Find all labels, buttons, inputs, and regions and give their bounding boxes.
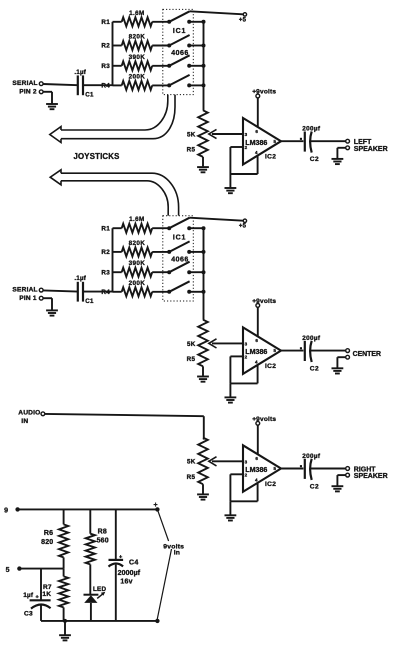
svg-text:IC2: IC2 [265,481,276,488]
svg-text:.1µf: .1µf [74,69,86,76]
potentiometer R5 5K section 3 [187,438,208,485]
svg-text:R1: R1 [101,225,110,232]
wiper arrow of R5 into pin 3 section 1 [209,129,243,138]
ground at bottom rail [59,619,71,641]
svg-text:2000µf: 2000µf [118,570,141,577]
svg-text:1µf: 1µf [23,592,34,599]
joysticks arrow into IC1 section 2 [50,170,178,216]
wire C2 to output terminal section 1 [311,140,346,142]
svg-text:200µf: 200µf [302,335,321,342]
capacitor C2 200uf section 3 [300,453,321,491]
analog switch 3 of IC1 section 2 [152,262,191,275]
svg-text:200K: 200K [129,280,146,287]
analog switch 4 of IC1 section 2 [152,281,191,294]
ground at output terminal section 2 [332,357,346,373]
analog switch 2 of IC1 section 1 [152,35,191,48]
svg-text:IC1: IC1 [173,234,186,241]
wire switch 3 output to bus section 1 [189,64,205,68]
resistor R8 560 [86,509,109,564]
svg-text:390K: 390K [129,260,146,267]
wiper arrow of R5 into pin 3 section 2 [209,339,243,348]
label RIGHT SPEAKER section 3 [354,467,388,481]
svg-text:C2: C2 [310,156,319,163]
svg-text:5K: 5K [187,341,196,348]
potentiometer R5 5K section 1 [187,110,208,157]
svg-text:5: 5 [6,567,10,574]
node bottom right [155,619,159,623]
wire switch 3 output to bus section 2 [189,270,205,274]
svg-text:R3: R3 [101,63,110,70]
svg-text:LED: LED [93,586,106,593]
ground at output terminal section 3 [332,475,346,491]
svg-text:C3: C3 [24,610,33,617]
resistor R7 1K [42,568,68,621]
node + top right [154,502,160,512]
wire op-amp output pin 5 section 3 [281,468,303,470]
ground below R5 section 1 [197,157,209,172]
svg-text:1.6M: 1.6M [129,10,145,17]
svg-text:R6: R6 [44,530,53,537]
wire bottom rail [41,620,157,622]
wire feedback loop pins 2 and 4 section 1 [230,147,257,174]
svg-text:R5: R5 [187,147,196,154]
svg-text:SERIAL: SERIAL [12,80,37,87]
svg-text:200K: 200K [129,73,146,80]
svg-text:LM386: LM386 [245,466,267,474]
analog switch 1 of IC1 section 1 [152,11,191,23]
svg-text:PIN 2: PIN 2 [19,89,37,96]
resistor R6 820 [41,509,68,568]
resistor R2 (820K) section 1 [101,34,152,51]
wire top rail [18,508,158,510]
output terminals RIGHT SPEAKER section 3 [346,467,350,477]
op-amp U LM386 IC2 section 1 [243,118,281,165]
capacitor C2 200uf section 1 [300,126,321,164]
label JOYSTICKS [74,152,120,161]
svg-text:IN: IN [21,418,28,425]
op-amp U LM386 IC2 section 2 [243,327,281,374]
IC1 4066 dashed outline section 2 [163,216,194,301]
capacitor C1 .1uf section 2 [43,275,112,305]
svg-text:C4: C4 [129,560,139,567]
svg-text:+5: +5 [239,224,247,230]
svg-text:R5: R5 [187,356,196,363]
potentiometer R5 5K section 2 [187,320,208,367]
wire switch 4 output to bus section 1 [189,83,205,87]
svg-text:1.6M: 1.6M [129,216,145,223]
svg-text:4066: 4066 [171,256,189,263]
svg-text:C2: C2 [310,484,319,491]
svg-text:200µf: 200µf [302,126,321,133]
wire switch 1 output to bus section 1 [189,20,205,24]
svg-text:JOYSTICKS: JOYSTICKS [74,152,120,161]
wire audio in to R5 section 3 [45,414,204,440]
svg-text:200µf: 200µf [302,453,321,460]
analog switch 1 of IC1 section 2 [152,218,191,231]
ground at serial pin 1 [43,298,58,315]
resistor R4 (200K) section 2 [101,280,152,297]
svg-text:IC1: IC1 [173,28,186,35]
ground on feedback loop section 2 [225,383,237,402]
label CENTER section 2 [353,351,381,358]
svg-text:R5: R5 [187,474,196,481]
label LEFT SPEAKER section 1 [354,139,388,153]
wire switch bus to R5 section 1 [203,22,205,111]
svg-text:CENTER: CENTER [353,351,381,358]
svg-text:C1: C1 [85,298,94,305]
wire left bus joining R1-R4 inputs section 2 [112,228,114,292]
+5 supply terminal section 2 [190,218,247,230]
+9volts supply terminal section 1 [252,89,276,128]
wire switch 2 output to bus section 2 [189,250,205,254]
output terminals LEFT SPEAKER section 1 [346,139,350,149]
+5 supply terminal section 1 [190,11,247,23]
svg-text:5K: 5K [187,131,196,138]
svg-text:in: in [174,550,180,557]
resistor R1 (1.6M) section 2 [101,216,152,233]
wire left bus joining R1-R4 inputs section 1 [112,22,114,86]
svg-text:SPEAKER: SPEAKER [354,146,388,153]
resistor R2 (820K) section 2 [101,240,152,257]
svg-text:820: 820 [41,539,53,546]
+9volts supply terminal section 2 [252,298,276,337]
ground at serial pin 2 [43,92,58,109]
svg-text:C1: C1 [85,92,94,99]
serial pin 2 input terminals [12,80,43,96]
svg-text:R2: R2 [101,249,110,256]
svg-text:1K: 1K [42,591,51,598]
svg-text:R1: R1 [101,19,110,26]
wiper arrow of R5 into pin 3 section 3 [209,457,243,466]
wire op-amp output pin 5 section 1 [281,140,303,142]
terminal 9 of power input [4,507,20,514]
+9volts supply terminal section 3 [252,416,276,455]
audio in terminal [18,410,45,426]
svg-text:SPEAKER: SPEAKER [354,473,388,480]
ground on feedback loop section 1 [225,174,237,193]
analog switch 2 of IC1 section 2 [152,241,191,254]
svg-text:9: 9 [4,507,8,514]
analog switch 3 of IC1 section 1 [152,55,191,68]
op-amp U LM386 IC2 section 3 [243,445,281,492]
wire feedback loop pins 2 and 4 section 2 [230,356,257,383]
terminal 5 of power input [6,566,22,574]
ground at output terminal section 1 [332,148,346,164]
svg-text:PIN 1: PIN 1 [19,295,37,302]
resistor R3 (390K) section 1 [101,54,152,71]
svg-text:560: 560 [97,538,109,545]
capacitor C4 2000uf 16v [109,509,141,621]
svg-text:820K: 820K [129,34,146,41]
svg-text:5K: 5K [187,459,196,466]
capacitor C1 .1uf section 1 [43,69,112,99]
resistor R4 (200K) section 1 [101,73,152,90]
svg-text:IC2: IC2 [265,154,276,161]
svg-text:SERIAL: SERIAL [12,286,37,293]
svg-text:LM386: LM386 [245,348,267,356]
wire switch 2 output to bus section 1 [189,44,205,48]
svg-text:820K: 820K [129,240,146,247]
ground below R5 section 3 [197,484,209,499]
ground on feedback loop section 3 [225,501,237,520]
joysticks arrow from IC1 section 1 [50,95,175,143]
svg-text:390K: 390K [129,54,146,61]
9volts in leads [157,509,184,621]
svg-text:AUDIO: AUDIO [18,410,40,417]
wire switch bus to R5 section 2 [203,228,205,320]
resistor R3 (390K) section 2 [101,260,152,277]
wire 5 line to R6/R7 junction [19,568,63,570]
svg-text:4066: 4066 [171,50,189,57]
resistor R1 (1.6M) section 1 [101,10,152,27]
svg-text:16v: 16v [120,578,132,585]
wire C2 to output terminal section 2 [311,350,346,352]
svg-text:R2: R2 [101,43,110,50]
capacitor C3 1uf [23,569,50,621]
capacitor C2 200uf section 2 [300,335,321,373]
wire switch 1 output to bus section 2 [189,226,205,230]
output terminals CENTER section 2 [346,349,350,359]
wire switch 4 output to bus section 2 [189,290,205,294]
wire C2 to output terminal section 3 [311,468,346,470]
wire feedback loop pins 2 and 4 section 3 [230,474,257,501]
IC1 4066 dashed outline section 1 [163,9,194,94]
serial pin 1 input terminals [12,286,43,302]
svg-text:+: + [154,502,158,509]
wire op-amp output pin 5 section 2 [281,350,303,352]
svg-text:C2: C2 [310,366,319,373]
analog switch 4 of IC1 section 1 [152,75,191,88]
LED [84,564,107,621]
svg-text:IC2: IC2 [265,363,276,370]
svg-text:R8: R8 [98,529,107,536]
ground below R5 section 2 [197,366,209,381]
svg-text:+5: +5 [239,17,247,23]
svg-text:R3: R3 [101,269,110,276]
svg-text:.1µf: .1µf [74,275,86,282]
svg-text:LM386: LM386 [245,139,267,147]
